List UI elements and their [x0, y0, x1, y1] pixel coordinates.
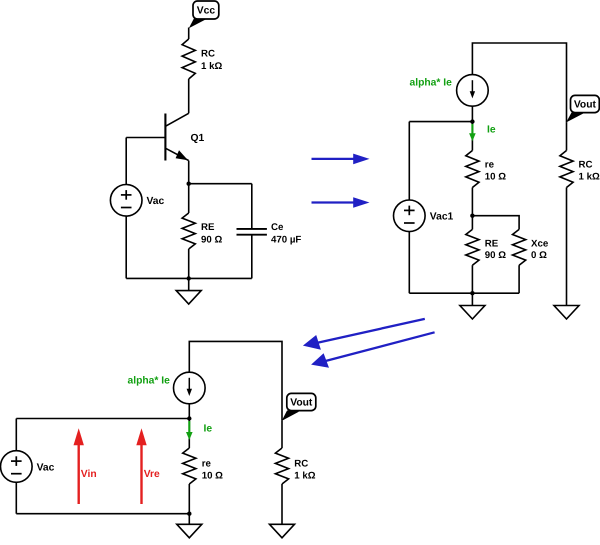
- svg-text:alpha* Ie: alpha* Ie: [410, 78, 453, 89]
- net label Vout (small-signal): [566, 95, 599, 122]
- svg-text:Vcc: Vcc: [197, 6, 216, 17]
- svg-text:Vre: Vre: [144, 469, 160, 480]
- wire to ground stem: [188, 278, 190, 290]
- blue arrow 2 (to small-signal model): [312, 197, 370, 208]
- ground (left circuit): [176, 291, 201, 305]
- svg-text:RC: RC: [579, 159, 593, 170]
- wire Vac to bottom rail (simplified): [15, 482, 17, 513]
- wire source to node: [471, 106, 473, 121]
- svg-text:Ie: Ie: [204, 423, 213, 434]
- svg-text:90 Ω: 90 Ω: [201, 234, 222, 245]
- wire top rail (small-signal circuit): [472, 43, 566, 122]
- node emitter node: [187, 182, 191, 186]
- blue arrow 1 (to small-signal model): [312, 154, 370, 165]
- svg-text:RE: RE: [485, 238, 499, 249]
- resistor RC (left circuit): [182, 39, 222, 79]
- svg-text:1 kΩ: 1 kΩ: [294, 471, 315, 482]
- voltage source Vac: [110, 185, 164, 217]
- svg-text:Ie: Ie: [487, 125, 496, 136]
- svg-text:Vin: Vin: [81, 469, 97, 480]
- svg-text:1 kΩ: 1 kΩ: [579, 172, 600, 183]
- wire RE to bottom rail: [188, 249, 190, 278]
- wire down to Vac1: [408, 122, 410, 200]
- wire node to RE: [188, 184, 190, 213]
- wire Xce to bottom rail: [518, 265, 520, 293]
- blue arrow 4 (to simplified model): [311, 332, 435, 368]
- wire node rail (simplified): [16, 418, 189, 420]
- svg-text:RC: RC: [201, 49, 215, 60]
- wire Q1 base: [126, 137, 165, 139]
- wire bottom rail (left circuit): [126, 277, 252, 279]
- wire top rail (simplified circuit): [189, 341, 282, 421]
- svg-text:1 kΩ: 1 kΩ: [201, 61, 222, 72]
- capacitor Ce: [237, 184, 302, 279]
- transistor Q1: [165, 113, 204, 160]
- wire RE to bottom rail: [471, 265, 473, 293]
- svg-text:Vac1: Vac1: [430, 212, 454, 223]
- svg-text:Ce: Ce: [271, 222, 284, 233]
- current source alpha*Ie (simplified): [174, 372, 206, 404]
- svg-text:re: re: [202, 458, 212, 469]
- svg-text:10 Ω: 10 Ω: [485, 172, 506, 183]
- wire emitter node to Ce: [189, 183, 252, 185]
- wire Q1 emitter to node: [188, 161, 190, 184]
- wire RC to Q1 collector: [188, 79, 190, 113]
- ground (simplified right): [270, 524, 295, 538]
- wire Vac to bottom rail: [125, 216, 127, 278]
- ground (simplified mid): [177, 524, 202, 538]
- node bottom node (simplified): [187, 512, 191, 516]
- wire mid node to RE: [471, 216, 473, 230]
- voltage source Vac (simplified): [0, 451, 54, 483]
- current arrow Ie (small-signal): [469, 124, 476, 141]
- wire node to re: [471, 122, 473, 151]
- svg-text:Vout: Vout: [574, 100, 597, 111]
- resistor RE (left circuit): [182, 213, 222, 249]
- wire down to Vac (simplified): [15, 419, 17, 451]
- wire re to bottom rail (simplified): [188, 484, 190, 514]
- net label Vout (simplified): [282, 393, 316, 421]
- wire node to re (simplified): [188, 419, 190, 449]
- wire re to mid node: [471, 188, 473, 216]
- wire bottom rail (small-signal): [409, 292, 519, 294]
- wire bottom rail (simplified): [16, 513, 189, 515]
- svg-text:RC: RC: [294, 458, 308, 469]
- resistor RC (simplified): [275, 448, 315, 484]
- svg-text:Vout: Vout: [290, 398, 313, 409]
- net label Vcc: [189, 1, 219, 28]
- resistor Xce: [513, 229, 549, 265]
- node node Ie (simplified): [187, 416, 191, 420]
- wire ground stem (simplified): [188, 514, 190, 525]
- svg-text:Xce: Xce: [531, 238, 549, 249]
- resistor RE (small-signal): [466, 229, 506, 265]
- wire RC to ground (simplified): [281, 484, 283, 524]
- svg-text:Vac: Vac: [37, 462, 55, 473]
- wire Vout node to RC (simplified): [281, 421, 283, 448]
- svg-text:90 Ω: 90 Ω: [485, 250, 506, 261]
- wire base to Vac: [125, 138, 127, 185]
- current arrow Ie (simplified): [186, 421, 193, 440]
- voltage source Vac1: [394, 200, 454, 232]
- wire Vout node to RC: [566, 122, 568, 150]
- blue arrow 3 (to simplified model): [303, 319, 425, 350]
- svg-text:Vac: Vac: [147, 196, 165, 207]
- wire Vac1 to bottom rail: [408, 232, 410, 294]
- svg-text:470 µF: 470 µF: [271, 234, 301, 245]
- ground (small-signal right): [554, 306, 579, 320]
- svg-text:Q1: Q1: [191, 133, 205, 144]
- wire to ground stem (small-signal): [471, 293, 473, 305]
- resistor re (small-signal): [466, 151, 506, 188]
- node bottom node (left circuit): [187, 276, 191, 280]
- voltage arrow Vin: [74, 428, 97, 504]
- wire mid node to Xce: [472, 216, 519, 230]
- resistor RC (small-signal): [560, 151, 600, 188]
- node mid node (small-signal): [470, 214, 474, 218]
- node bottom node (small-signal): [470, 291, 474, 295]
- current source alpha*Ie (small-signal): [457, 75, 489, 107]
- wire source to node (simplified): [188, 404, 190, 419]
- wire Vcc to RC: [188, 28, 190, 40]
- resistor re (simplified): [183, 448, 223, 484]
- svg-text:RE: RE: [201, 222, 215, 233]
- node node Ie (small-signal): [470, 119, 474, 123]
- svg-text:alpha* Ie: alpha* Ie: [128, 375, 171, 386]
- voltage arrow Vre: [136, 428, 160, 504]
- svg-text:10 Ω: 10 Ω: [202, 471, 223, 482]
- ground (small-signal mid): [460, 306, 485, 320]
- svg-text:re: re: [485, 159, 495, 170]
- wire RC to ground (small-signal): [566, 188, 568, 306]
- svg-text:0 Ω: 0 Ω: [531, 250, 547, 261]
- wire node to Vac1 branch: [409, 121, 472, 123]
